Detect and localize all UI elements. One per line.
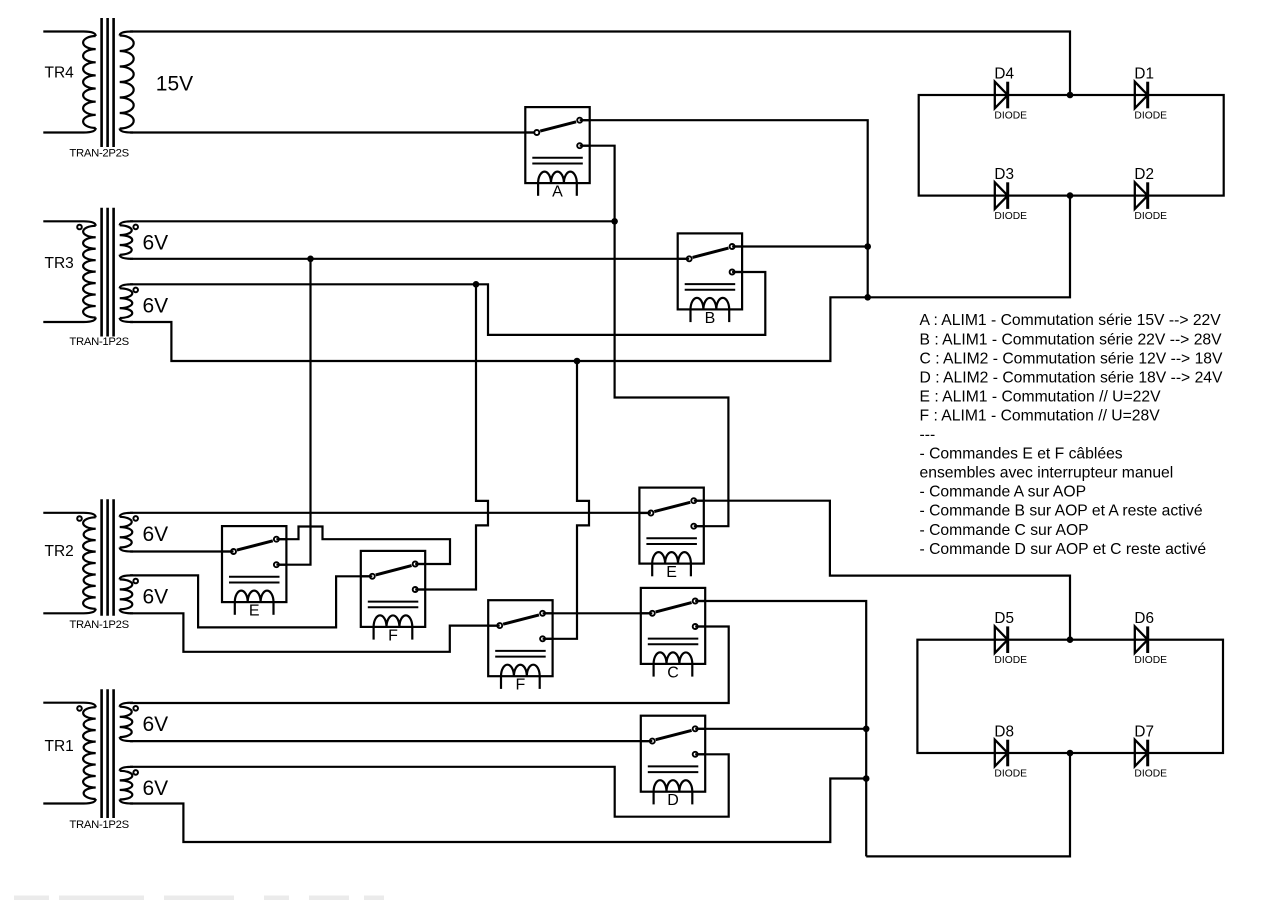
- svg-text:6V: 6V: [143, 713, 169, 736]
- svg-text:A : ALIM1 - Commutation série: A : ALIM1 - Commutation série 15V --> 22…: [920, 312, 1222, 329]
- svg-text:D1: D1: [1134, 65, 1154, 82]
- svg-text:DIODE: DIODE: [1134, 211, 1167, 222]
- svg-text:DIODE: DIODE: [1134, 655, 1167, 666]
- svg-text:TRAN-1P2S: TRAN-1P2S: [69, 336, 129, 348]
- svg-text:DIODE: DIODE: [1134, 111, 1167, 122]
- svg-text:E: E: [666, 564, 677, 581]
- svg-text:TRAN-1P2S: TRAN-1P2S: [69, 619, 129, 631]
- svg-text:- Commande D sur AOP et C rest: - Commande D sur AOP et C reste activé: [920, 541, 1207, 558]
- svg-text:F : ALIM1 - Commutation // U=2: F : ALIM1 - Commutation // U=28V: [920, 407, 1161, 424]
- svg-text:DIODE: DIODE: [994, 111, 1027, 122]
- svg-text:6V: 6V: [143, 586, 169, 609]
- svg-text:DIODE: DIODE: [994, 769, 1027, 780]
- svg-text:TRAN-2P2S: TRAN-2P2S: [69, 148, 129, 160]
- svg-text:6V: 6V: [143, 777, 169, 800]
- svg-text:DIODE: DIODE: [994, 211, 1027, 222]
- svg-text:DIODE: DIODE: [1134, 769, 1167, 780]
- svg-text:6V: 6V: [143, 523, 169, 546]
- svg-text:TR1: TR1: [45, 738, 74, 755]
- svg-text:D7: D7: [1134, 723, 1154, 740]
- svg-text:A: A: [552, 184, 563, 201]
- svg-text:---: ---: [920, 427, 936, 444]
- svg-text:6V: 6V: [143, 232, 169, 255]
- svg-text:D8: D8: [994, 723, 1014, 740]
- svg-text:- Commande B sur AOP et A rest: - Commande B sur AOP et A reste activé: [920, 503, 1203, 520]
- svg-text:E: E: [249, 603, 260, 620]
- svg-text:- Commande C sur AOP: - Commande C sur AOP: [920, 522, 1089, 539]
- svg-text:D3: D3: [994, 166, 1014, 183]
- svg-text:- Commandes E et F câblées: - Commandes E et F câblées: [920, 446, 1123, 463]
- svg-text:6V: 6V: [143, 295, 169, 318]
- svg-text:D6: D6: [1134, 610, 1154, 627]
- svg-text:DIODE: DIODE: [994, 655, 1027, 666]
- svg-text:F: F: [516, 677, 526, 694]
- svg-text:D4: D4: [994, 65, 1014, 82]
- svg-text:ensembles avec interrupteur ma: ensembles avec interrupteur manuel: [920, 465, 1174, 482]
- svg-text:TR2: TR2: [45, 543, 74, 560]
- svg-text:B : ALIM1 - Commutation série: B : ALIM1 - Commutation série 22V --> 28…: [920, 331, 1223, 348]
- svg-text:15V: 15V: [156, 73, 193, 96]
- svg-text:TR3: TR3: [45, 255, 74, 272]
- svg-text:C: C: [667, 664, 679, 681]
- svg-text:F: F: [388, 627, 398, 644]
- svg-text:D2: D2: [1134, 166, 1154, 183]
- svg-text:E : ALIM1 - Commutation // U=2: E : ALIM1 - Commutation // U=22V: [920, 388, 1162, 405]
- svg-text:TR4: TR4: [45, 65, 75, 82]
- svg-text:C : ALIM2 - Commutation série: C : ALIM2 - Commutation série 12V --> 18…: [920, 350, 1224, 367]
- svg-text:TRAN-1P2S: TRAN-1P2S: [69, 819, 129, 831]
- svg-text:D5: D5: [994, 610, 1014, 627]
- svg-text:- Commande A sur AOP: - Commande A sur AOP: [920, 484, 1087, 501]
- svg-text:B: B: [705, 310, 716, 327]
- svg-text:D: D: [667, 792, 679, 809]
- svg-text:D : ALIM2 - Commutation série: D : ALIM2 - Commutation série 18V --> 24…: [920, 369, 1224, 386]
